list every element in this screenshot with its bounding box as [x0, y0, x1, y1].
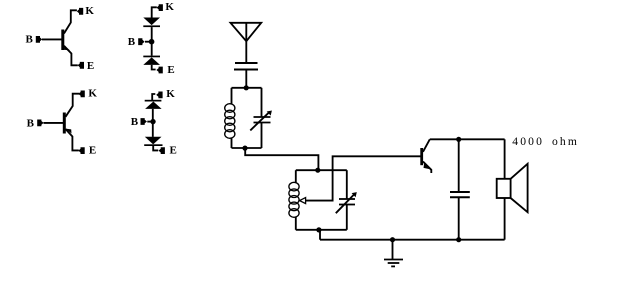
base wire: [44, 122, 64, 124]
terminal E (bottom-left): [78, 147, 84, 154]
diode pair PNP-equivalent (top-right demo symbol): [143, 7, 160, 69]
svg-text:4000: 4000: [512, 135, 544, 148]
svg-text:ohm: ohm: [552, 135, 579, 148]
node dot tank1 top: [244, 85, 249, 90]
node dot ground: [390, 237, 395, 242]
tank2 left wire lower: [295, 216, 297, 229]
svg-text:K: K: [88, 87, 97, 99]
tank1 left wire upper: [231, 88, 233, 105]
wire node to D4: [152, 122, 154, 137]
terminal B (bottom-left): [37, 120, 43, 127]
diode D4 (cathode down): [145, 137, 162, 145]
tank1 bottom wire: [232, 147, 262, 149]
K lead wire: [152, 94, 155, 100]
tank2 left wire upper: [295, 170, 297, 183]
wire C1 to tank1: [245, 70, 247, 88]
svg-text:K: K: [85, 5, 94, 17]
inductor L2: [289, 182, 299, 217]
terminal B (bottom-right): [141, 118, 147, 125]
node B dot: [149, 39, 155, 45]
variable capacitor VC2: [336, 192, 357, 213]
svg-text:E: E: [89, 145, 96, 157]
variable capacitor VC1: [250, 111, 272, 131]
wire rail to C3: [458, 139, 460, 192]
wire D1 to node: [151, 27, 153, 42]
base wire: [42, 38, 62, 40]
terminal K (top-right): [157, 4, 163, 11]
capacitor C1: [234, 63, 258, 70]
right rail lower wire: [504, 198, 506, 240]
diode D2 (cathode up): [143, 56, 160, 58]
inductor L1: [225, 104, 235, 139]
tank2 right wire upper: [346, 170, 348, 199]
svg-text:B: B: [128, 36, 136, 48]
collector wire: [423, 139, 430, 152]
transistor Q-PNP (bottom-left demo symbol): [44, 94, 80, 151]
top rail wire: [430, 138, 505, 140]
tank2 top wire: [296, 169, 347, 171]
terminal B (top-right): [138, 38, 144, 45]
base bar: [420, 148, 423, 165]
terminal B (top-left): [36, 36, 42, 43]
base bar: [63, 113, 66, 134]
svg-text:E: E: [170, 145, 177, 157]
tank1 right wire upper: [261, 88, 263, 117]
ground rail wire: [320, 239, 505, 241]
node dot top rail: [456, 137, 461, 142]
terminal K (bottom-left): [78, 91, 84, 98]
base bar: [61, 30, 64, 51]
svg-text:K: K: [165, 1, 174, 13]
wire D3 to node: [152, 109, 154, 122]
wire node to D2: [151, 42, 153, 56]
B lead wire: [145, 41, 151, 43]
emitter wire: [423, 162, 431, 174]
terminal E (bottom-right): [159, 147, 165, 154]
K lead wire: [152, 7, 157, 17]
collector wire: [66, 94, 80, 117]
terminal E (top-right): [156, 67, 162, 74]
E lead wire: [152, 65, 156, 70]
svg-text:B: B: [26, 34, 34, 46]
svg-text:B: B: [27, 117, 35, 129]
diode pair NPN-equivalent (bottom-right demo symbol): [144, 94, 162, 150]
wire tank1 to tank2: [245, 148, 318, 170]
svg-text:K: K: [166, 88, 175, 100]
svg-text:B: B: [131, 116, 139, 128]
speaker LS1: [497, 164, 528, 212]
terminal E (top-left): [78, 62, 84, 69]
wire antenna to C1: [245, 41, 247, 62]
capacitor C3: [450, 192, 470, 197]
coil tap arrow: [300, 198, 306, 204]
diode D3 (cathode up): [145, 100, 162, 102]
emitter wire: [66, 129, 79, 150]
ground: [384, 240, 403, 267]
tank2 right wire lower: [346, 205, 348, 230]
tank1 right wire lower: [261, 123, 263, 149]
tap wire to base: [306, 156, 421, 200]
B lead wire: [147, 121, 152, 123]
wire tank2 to ground rail: [319, 230, 321, 240]
terminal K (top-left): [77, 8, 83, 15]
node dot bottom rail: [456, 237, 461, 242]
right rail upper wire: [504, 139, 506, 179]
E lead wire: [153, 146, 158, 150]
svg-text:E: E: [87, 60, 94, 72]
emitter arrow (NPN): [64, 46, 70, 51]
node dot tank2 top: [315, 168, 320, 173]
tank1 top wire: [232, 87, 262, 89]
transistor Q-NPN (top-left demo symbol): [42, 10, 78, 65]
svg-text:E: E: [167, 64, 174, 76]
wire C3 to ground rail: [458, 197, 460, 239]
transistor Q1: [420, 139, 431, 173]
diode D1 (cathode down): [143, 18, 160, 26]
collector wire: [64, 10, 77, 33]
antenna: [231, 23, 262, 41]
tank1 left wire lower: [231, 137, 233, 148]
emitter arrow (NPN): [424, 163, 431, 169]
node dot tank1 bottom: [242, 146, 247, 151]
node B dot: [150, 119, 155, 124]
terminal K (bottom-right): [156, 92, 162, 99]
emitter arrow (PNP): [66, 129, 72, 134]
emitter wire: [64, 46, 78, 66]
node dot tank2 bottom: [316, 227, 321, 232]
tank2 bottom wire: [296, 229, 347, 231]
